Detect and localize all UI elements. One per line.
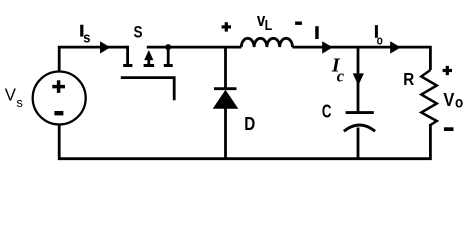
VS plus sign [52, 80, 65, 93]
mosfet source contact bar [164, 64, 173, 67]
label Is [80, 25, 83, 37]
capacitor C [344, 113, 375, 132]
label + (vL left) [222, 22, 231, 31]
wire top segment C (after inductor to resistor corner) [293, 47, 431, 70]
wire bottom rail [59, 124, 430, 159]
label - (output) [444, 127, 454, 131]
wire top segment A (source to switch drain) [59, 47, 127, 72]
capacitor top plate [346, 111, 374, 114]
svg-text:o: o [377, 33, 383, 48]
mosfet gate line [121, 78, 174, 101]
arrow Ic [353, 73, 364, 85]
mosfet drain contact bar [123, 64, 132, 67]
label + (output) [443, 66, 452, 75]
VS minus sign [54, 111, 63, 115]
svg-text:s: s [16, 95, 23, 110]
label - (vL right) [295, 22, 302, 25]
svg-text:D: D [244, 114, 255, 134]
svg-text:S: S [134, 23, 143, 41]
svg-text:V: V [443, 89, 455, 110]
mosfet body stem [147, 58, 150, 64]
svg-text:c: c [337, 66, 345, 85]
svg-text:o: o [455, 95, 463, 112]
svg-text:s: s [83, 29, 90, 46]
diode D [213, 89, 239, 109]
svg-text:L: L [265, 18, 273, 34]
arrow I [322, 41, 333, 53]
svg-text:V: V [5, 84, 17, 104]
diode triangle [213, 90, 239, 109]
inductor L coil [241, 38, 292, 47]
mosfet body contact bar [144, 64, 155, 67]
wire diode anode to bottom rail [224, 108, 227, 159]
junction dot at source node [165, 44, 171, 50]
svg-text:R: R [403, 69, 414, 89]
diode cathode bar [214, 87, 237, 90]
wire capacitor branch upper [357, 47, 360, 112]
label I (inductor current) [315, 26, 319, 39]
arrow Io [390, 41, 401, 53]
mosfet body arrow [144, 50, 153, 60]
resistor R zigzag [421, 70, 437, 125]
mosfet source stub [167, 47, 170, 64]
arrow Is [100, 41, 110, 53]
svg-text:C: C [322, 100, 332, 121]
mosfet drain stub [126, 46, 129, 64]
wire diode branch upper [224, 47, 227, 88]
label Io [375, 25, 378, 38]
MOSFET switch S [128, 46, 169, 64]
wire top segment B (switch body link to source dot) [147, 46, 242, 49]
voltage source VS circle [33, 72, 86, 125]
wire capacitor bottom stem [357, 128, 360, 159]
capacitor curved bottom plate [344, 125, 375, 131]
